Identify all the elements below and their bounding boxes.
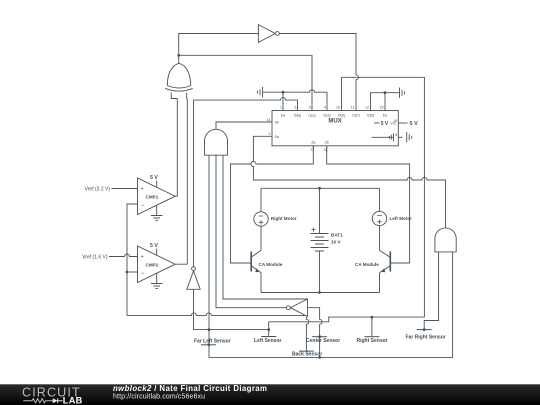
XOR gate U2	[167, 63, 190, 85]
op-amp CMP2	[138, 246, 176, 283]
motor M1 Right Motor	[254, 212, 268, 226]
MUX pin 16 Vcc stub and 5V flag	[398, 122, 404, 124]
motor box bottom rail	[261, 292, 380, 294]
svg-text:10 V: 10 V	[331, 240, 341, 245]
svg-text:11: 11	[351, 106, 355, 110]
MUX bottom pin stubs	[313, 146, 326, 152]
svg-text:I0(b): I0(b)	[338, 114, 345, 118]
transistor Q2 (CA Module left)	[389, 252, 391, 272]
MUX internal Vcc marker	[374, 122, 380, 124]
junction dot battery top	[318, 187, 321, 190]
svg-text:Left Sensor: Left Sensor	[254, 338, 282, 344]
node Right Sensor bar	[364, 336, 379, 338]
MUX pin name labels	[281, 114, 387, 145]
junction dot on U4 input line at AND in1	[208, 328, 211, 331]
node Far Right Sensor bar	[417, 329, 432, 331]
wire: AND U5 input 1 down to bottom line and to AND U7 input 2	[209, 155, 453, 357]
junction dot center sensor	[318, 335, 321, 338]
svg-text:2: 2	[269, 132, 271, 136]
ground GND1 (left of MUX)	[258, 87, 263, 97]
svg-text:http://circuitlab.com/c56e6xu: http://circuitlab.com/c56e6xu	[113, 393, 205, 400]
svg-text:15: 15	[380, 106, 384, 110]
node Center Sensor bar	[312, 336, 327, 338]
transistor Q1 (CA Module right)	[250, 252, 252, 272]
flag Vref (1.6 V) wire with hop	[109, 254, 138, 257]
wire: CMP2 output up to XOR input B	[175, 99, 187, 265]
wire: Right Sensor stub to bus B1	[371, 317, 373, 337]
junction dot far left sensor	[207, 343, 210, 346]
junction dot battery bottom	[318, 291, 321, 294]
svg-text:CA Module: CA Module	[355, 262, 379, 267]
inverter U4 (pointing up)	[192, 267, 196, 271]
svg-text:I1(b): I1(b)	[352, 114, 359, 118]
svg-text:CA Module: CA Module	[259, 262, 283, 267]
wire: MUX pin 2 Sa to AND U7 output, hops over Za wire, Zb wire, bus B1	[251, 136, 446, 228]
svg-text:5 V: 5 V	[150, 243, 158, 249]
wire: inverter U6 input to Center Sensor, hop over bus B1	[308, 308, 323, 337]
svg-text:Right Motor: Right Motor	[271, 216, 297, 221]
junction dot center sensor bottom	[318, 356, 321, 359]
svg-text:4: 4	[324, 106, 326, 110]
wire: left motor branch	[379, 188, 381, 250]
svg-text:5: 5	[309, 106, 311, 110]
svg-text:I2(b): I2(b)	[367, 114, 374, 118]
svg-text:Ea: Ea	[281, 114, 285, 118]
wire: AND U5 input 2 to inverter U6 output	[216, 155, 286, 308]
multiplexer U1 MUX box	[272, 111, 398, 146]
wire: AND U7 input 1 to Far Right Sensor	[424, 252, 438, 330]
wire: GND2 to MUX pin 12 I2(b)	[371, 93, 400, 105]
wire: right motor branch	[260, 188, 262, 250]
CircuitLab logo squiggle: wire, resistor, diode	[23, 399, 52, 403]
svg-text:8: 8	[395, 133, 397, 137]
sensor flag bars	[201, 330, 432, 352]
junction dot GND2 node	[384, 91, 387, 94]
wire: GND1 branch to MUX pin 1 Ea	[282, 92, 284, 105]
svg-text:Eb: Eb	[383, 114, 387, 118]
svg-text:1: 1	[280, 106, 282, 110]
MUX pin number labels	[267, 106, 398, 152]
MUX pin 8 GND stub	[398, 136, 402, 138]
ground GND3 at MUX pin 8	[407, 132, 412, 142]
svg-text:Sa: Sa	[275, 135, 279, 139]
svg-text:12: 12	[365, 106, 369, 110]
svg-text:−: −	[141, 203, 145, 209]
junction dot GND1 node	[282, 91, 285, 94]
svg-text:I1(a): I1(a)	[308, 114, 315, 118]
svg-text:I0(a): I0(a)	[294, 114, 301, 118]
junction dot at left sensor vertical	[267, 328, 270, 331]
svg-text:CMP2: CMP2	[146, 262, 159, 267]
inverter U3	[258, 25, 275, 43]
svg-text:Vref (1.6 V): Vref (1.6 V)	[82, 254, 108, 260]
wire: MUX pin 9 Zb to Q2 base	[327, 146, 410, 263]
svg-text:Far Right Sensor: Far Right Sensor	[406, 335, 446, 341]
motor M2 Left Motor	[372, 211, 386, 225]
AND gate U7 (2-input)	[435, 228, 456, 252]
wire: battery bottom lead	[319, 251, 321, 293]
wire: Center Sensor to bottom line	[319, 337, 321, 358]
node N1 junction dot	[177, 54, 180, 57]
wire: AND U5 input 3 to inverter U6 top	[223, 155, 308, 299]
wire: MUX pin 7 Za to Q1 base, hop over Sa wire	[231, 146, 314, 263]
wire: inverter U4 input	[194, 290, 269, 330]
wire: XOR input A stub	[171, 93, 177, 99]
svg-text:7: 7	[310, 148, 312, 152]
node Far Left Sensor bar	[201, 344, 216, 346]
MUX internal GND marker	[372, 133, 394, 141]
bus B1: CMP feedback to MUX pin 10 I0(b)	[127, 204, 306, 315]
svg-text:Back Sensor: Back Sensor	[292, 352, 322, 358]
svg-text:MUX: MUX	[328, 119, 341, 125]
CMP1 5V stub	[156, 181, 158, 187]
svg-text:Zb: Zb	[325, 141, 329, 145]
svg-text:Za: Za	[311, 141, 315, 145]
ground GND2 (right of MUX)	[400, 88, 405, 98]
motor box top rail	[261, 187, 380, 189]
wire: Back Sensor up to inverter U6, hop over L2	[306, 317, 309, 351]
svg-text:10: 10	[336, 106, 340, 110]
svg-text:5 V: 5 V	[410, 121, 419, 127]
wire: GND1 to MUX pin 4 I2(a), hop over I1(a)	[263, 90, 328, 105]
MUX left pin stubs	[266, 122, 272, 136]
battery BAT1	[311, 234, 329, 252]
MUX top pin stubs	[283, 105, 385, 111]
wire: XOR U2 output node to inverter U3 input	[179, 34, 259, 64]
svg-text:5 V: 5 V	[150, 175, 158, 181]
svg-text:Center Sensor: Center Sensor	[306, 338, 340, 344]
CMP2 5V stub	[156, 249, 158, 255]
wire: CMP1 output up to XOR input A	[175, 99, 177, 197]
svg-text:9: 9	[324, 148, 326, 152]
svg-text:5 V: 5 V	[381, 121, 389, 127]
CMP1 ground	[151, 206, 162, 221]
junction dot right sensor at B1	[371, 316, 374, 319]
wire: XOR input B stub	[186, 93, 189, 99]
op-amp CMP1	[138, 178, 176, 215]
svg-text:I2(a): I2(a)	[323, 114, 330, 118]
wire: Left Sensor stub	[268, 322, 270, 337]
svg-text:nwblock2 / Nate Final Circuit: nwblock2 / Nate Final Circuit Diagram	[113, 384, 267, 393]
AND gate U5 (3-input)	[205, 129, 228, 155]
svg-text:BAT1: BAT1	[331, 233, 343, 238]
CMP2 ground	[151, 274, 162, 289]
wire: battery top lead	[319, 188, 321, 233]
wire L2: Left Sensor over to bus B1, hop over back sensor wire	[269, 77, 425, 321]
svg-text:LAB: LAB	[63, 396, 83, 405]
wire: U5 output to MUX pin 14 S0	[216, 122, 266, 129]
svg-text:−: −	[141, 271, 145, 277]
battery plus sign	[312, 228, 316, 232]
svg-text:Right Sensor: Right Sensor	[357, 338, 388, 344]
svg-text:S0: S0	[275, 121, 279, 125]
svg-text:Vref (3.2 V): Vref (3.2 V)	[85, 186, 111, 192]
wire: CMP2 inverting input	[127, 271, 138, 273]
svg-text:Far Left Sensor: Far Left Sensor	[194, 338, 231, 344]
inverter U6 (pointing left)	[291, 299, 308, 317]
node Back Sensor bar	[299, 350, 314, 352]
junction dot far right sensor	[423, 328, 426, 331]
wire: inverter U3 output to MUX pin 11 I1(b) with hop	[279, 34, 358, 105]
svg-text:14: 14	[267, 118, 271, 122]
wire: node N1 to MUX pin 5 I1(a)	[179, 55, 312, 105]
svg-text:CMP1: CMP1	[146, 194, 159, 199]
sensor labels	[194, 335, 446, 358]
junction dot CMP2 inverting node	[126, 271, 129, 274]
svg-text:Left Motor: Left Motor	[390, 216, 413, 221]
node Left Sensor bar	[261, 336, 276, 338]
svg-text:+: +	[141, 186, 144, 192]
svg-text:Vcc: Vcc	[390, 121, 396, 125]
wire: inverter U4 output to MUX pin 6 I0(a), hop over Ea wire	[194, 98, 298, 267]
svg-text:6: 6	[295, 106, 297, 110]
flag Vref (3.2 V) wire	[112, 188, 138, 190]
svg-text:+: +	[141, 254, 144, 260]
wire: GND2 branch to MUX pin 15 Eb	[384, 93, 386, 105]
